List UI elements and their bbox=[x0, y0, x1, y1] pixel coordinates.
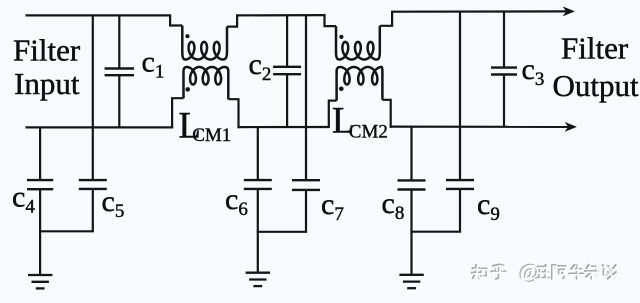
capacitor C9 bbox=[446, 180, 474, 189]
wire C4 lead to ground bbox=[39, 189, 41, 275]
inductor L_CM2 top winding bbox=[336, 26, 380, 60]
capacitor C4 bbox=[27, 180, 53, 189]
wire C1 top lead bbox=[118, 15, 120, 68]
wire jog into L_CM2 top-left bbox=[325, 15, 337, 26]
wire top-left segment bbox=[26, 14, 172, 16]
polarity dot L_CM2 top bbox=[339, 35, 343, 39]
wire jog into L_CM2 bottom-left bbox=[329, 101, 337, 127]
wire jog out of L_CM1 bottom-right bbox=[228, 99, 238, 128]
wire junction C4-C5 bbox=[39, 230, 94, 232]
wire C2 top lead bbox=[286, 15, 288, 67]
wire jog out of L_CM2 bottom-right bbox=[382, 100, 390, 128]
inductor L_CM1 top winding bbox=[182, 26, 227, 60]
svg-text:Filter: Filter bbox=[561, 31, 629, 66]
wire C8 top lead bbox=[410, 127, 412, 181]
wire C4 top lead bbox=[39, 127, 41, 180]
wire jog out of L_CM1 top-right bbox=[227, 15, 237, 26]
svg-text:Output: Output bbox=[553, 68, 640, 103]
svg-text:@: @ bbox=[520, 260, 540, 284]
wire bottom-right segment bbox=[390, 125, 570, 128]
wire C8 lead to ground bbox=[410, 190, 412, 275]
capacitor C2 bbox=[273, 67, 301, 74]
wire C9 bottom lead bbox=[459, 189, 461, 232]
ground left bbox=[28, 275, 52, 288]
wire junction C6-C7 bbox=[257, 231, 307, 233]
capacitor C3 bbox=[491, 68, 517, 75]
wire junction C8-C9 bbox=[410, 231, 461, 233]
wire C1 bottom lead bbox=[118, 75, 120, 127]
wire top-middle segment bbox=[236, 14, 326, 16]
svg-text:CM1: CM1 bbox=[192, 125, 231, 146]
arrowhead bottom output bbox=[566, 123, 576, 131]
wire C3 top lead bbox=[503, 12, 505, 68]
polarity dot L_CM1 bottom bbox=[185, 87, 190, 92]
capacitor C1 bbox=[105, 69, 134, 76]
capacitor C5 bbox=[79, 180, 107, 189]
inductor L_CM2 bottom winding bbox=[337, 67, 383, 101]
svg-text:CM2: CM2 bbox=[349, 121, 388, 142]
wire jog into L_CM1 top-left bbox=[170, 15, 182, 25]
ground middle bbox=[246, 273, 270, 286]
wire bottom-middle segment bbox=[237, 126, 330, 128]
inductor L_CM1 bottom winding bbox=[184, 67, 229, 99]
capacitor C6 bbox=[244, 180, 272, 189]
polarity dot L_CM1 top bbox=[185, 34, 189, 38]
wire tap from top line down to C5 bbox=[92, 15, 94, 180]
wire tap from top line down to C7 bbox=[305, 15, 307, 180]
capacitor C7 bbox=[292, 180, 320, 190]
wire tap from top line down to C9 bbox=[459, 12, 461, 181]
wire C2 bottom lead bbox=[286, 74, 288, 127]
wire C5 bottom lead bbox=[92, 189, 94, 231]
polarity dot L_CM2 bottom bbox=[339, 87, 344, 92]
wire C6 lead to ground bbox=[257, 189, 259, 273]
arrowhead top output bbox=[564, 8, 574, 16]
wire C6 top lead bbox=[257, 127, 259, 180]
svg-text:Filter: Filter bbox=[13, 33, 81, 68]
wire C3 bottom lead bbox=[503, 75, 505, 127]
ground right bbox=[399, 275, 423, 288]
wire jog out of L_CM2 top-right bbox=[380, 12, 392, 26]
wire jog into L_CM1 bottom-left bbox=[172, 98, 183, 127]
wire bottom-left segment bbox=[26, 126, 174, 128]
wire C7 bottom lead bbox=[305, 190, 307, 232]
wire top-right segment bbox=[391, 10, 568, 13]
watermark 知乎 @丑阿牛杂谈 bbox=[472, 259, 618, 284]
svg-text:Input: Input bbox=[14, 66, 80, 101]
capacitor C8 bbox=[398, 180, 426, 189]
